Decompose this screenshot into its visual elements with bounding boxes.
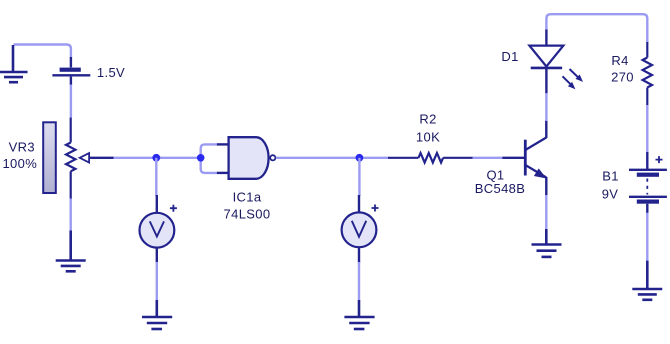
ground G4 (below voltmeter V2): [344, 300, 374, 329]
wire B1 to ground: [646, 213, 648, 261]
wire from ground G1 to battery top: [14, 45, 71, 58]
ground G5 (below Q1): [532, 229, 562, 257]
voltmeter V2: [342, 195, 379, 263]
wire R4 to battery B1: [646, 105, 648, 153]
ground G1 (top left): [0, 45, 28, 82]
svg-text:R4: R4: [611, 53, 628, 68]
svg-text:IC1a: IC1a: [233, 189, 262, 204]
potentiometer wiper arrow: [89, 157, 114, 159]
NAND gate IC1a body: [229, 137, 269, 179]
potentiometer VR3 track: [43, 122, 56, 193]
svg-text:74LS00: 74LS00: [224, 207, 271, 222]
wire VM1 to ground: [156, 262, 158, 301]
wire Q1 emitter to ground: [545, 195, 547, 230]
node junction dot on bracket: [197, 154, 205, 162]
svg-text:R2: R2: [419, 112, 436, 127]
wire wiper to gate input bracket: [114, 157, 201, 159]
wire battery to potentiometer: [70, 85, 72, 119]
wire gate output to R2: [276, 157, 389, 159]
wire pot bottom to ground: [69, 199, 71, 232]
wire LED to Q1 collector: [545, 93, 547, 121]
NAND gate output bubble: [270, 155, 275, 160]
node junction dot 2: [356, 154, 364, 162]
resistor R2: [388, 153, 473, 163]
resistor R4: [643, 42, 652, 106]
wire top rail (LED top to R4 top): [546, 14, 647, 42]
voltmeter V1: [140, 195, 177, 263]
wire VM2 to ground: [358, 262, 360, 301]
LED light arrows: [570, 69, 579, 78]
transistor Q1: [502, 120, 546, 196]
potentiometer VR3 resistor: [66, 118, 75, 199]
svg-text:VR3: VR3: [9, 139, 35, 154]
ground G6 (bottom right): [632, 261, 662, 300]
battery B1: [629, 152, 667, 213]
svg-text:270: 270: [611, 70, 634, 85]
svg-text:B1: B1: [602, 168, 619, 183]
battery cell 1.5V: [52, 57, 90, 85]
wire VM1 drop: [155, 158, 157, 196]
svg-text:1.5V: 1.5V: [97, 65, 125, 80]
svg-text:10K: 10K: [416, 130, 440, 145]
wire input bracket: [201, 144, 217, 173]
node junction dot 1: [152, 154, 160, 162]
wire VM2 drop: [358, 158, 360, 196]
svg-text:BC548B: BC548B: [475, 181, 526, 196]
ground G3 (below voltmeter V1): [142, 300, 172, 329]
ground G2 (below potentiometer): [56, 231, 86, 272]
wire R2 to Q1 base: [473, 157, 504, 159]
NAND gate IC1a input pins: [217, 144, 230, 173]
svg-text:9V: 9V: [602, 187, 619, 202]
svg-text:D1: D1: [501, 49, 518, 64]
svg-text:100%: 100%: [2, 156, 37, 171]
LED D1: [545, 30, 547, 46]
